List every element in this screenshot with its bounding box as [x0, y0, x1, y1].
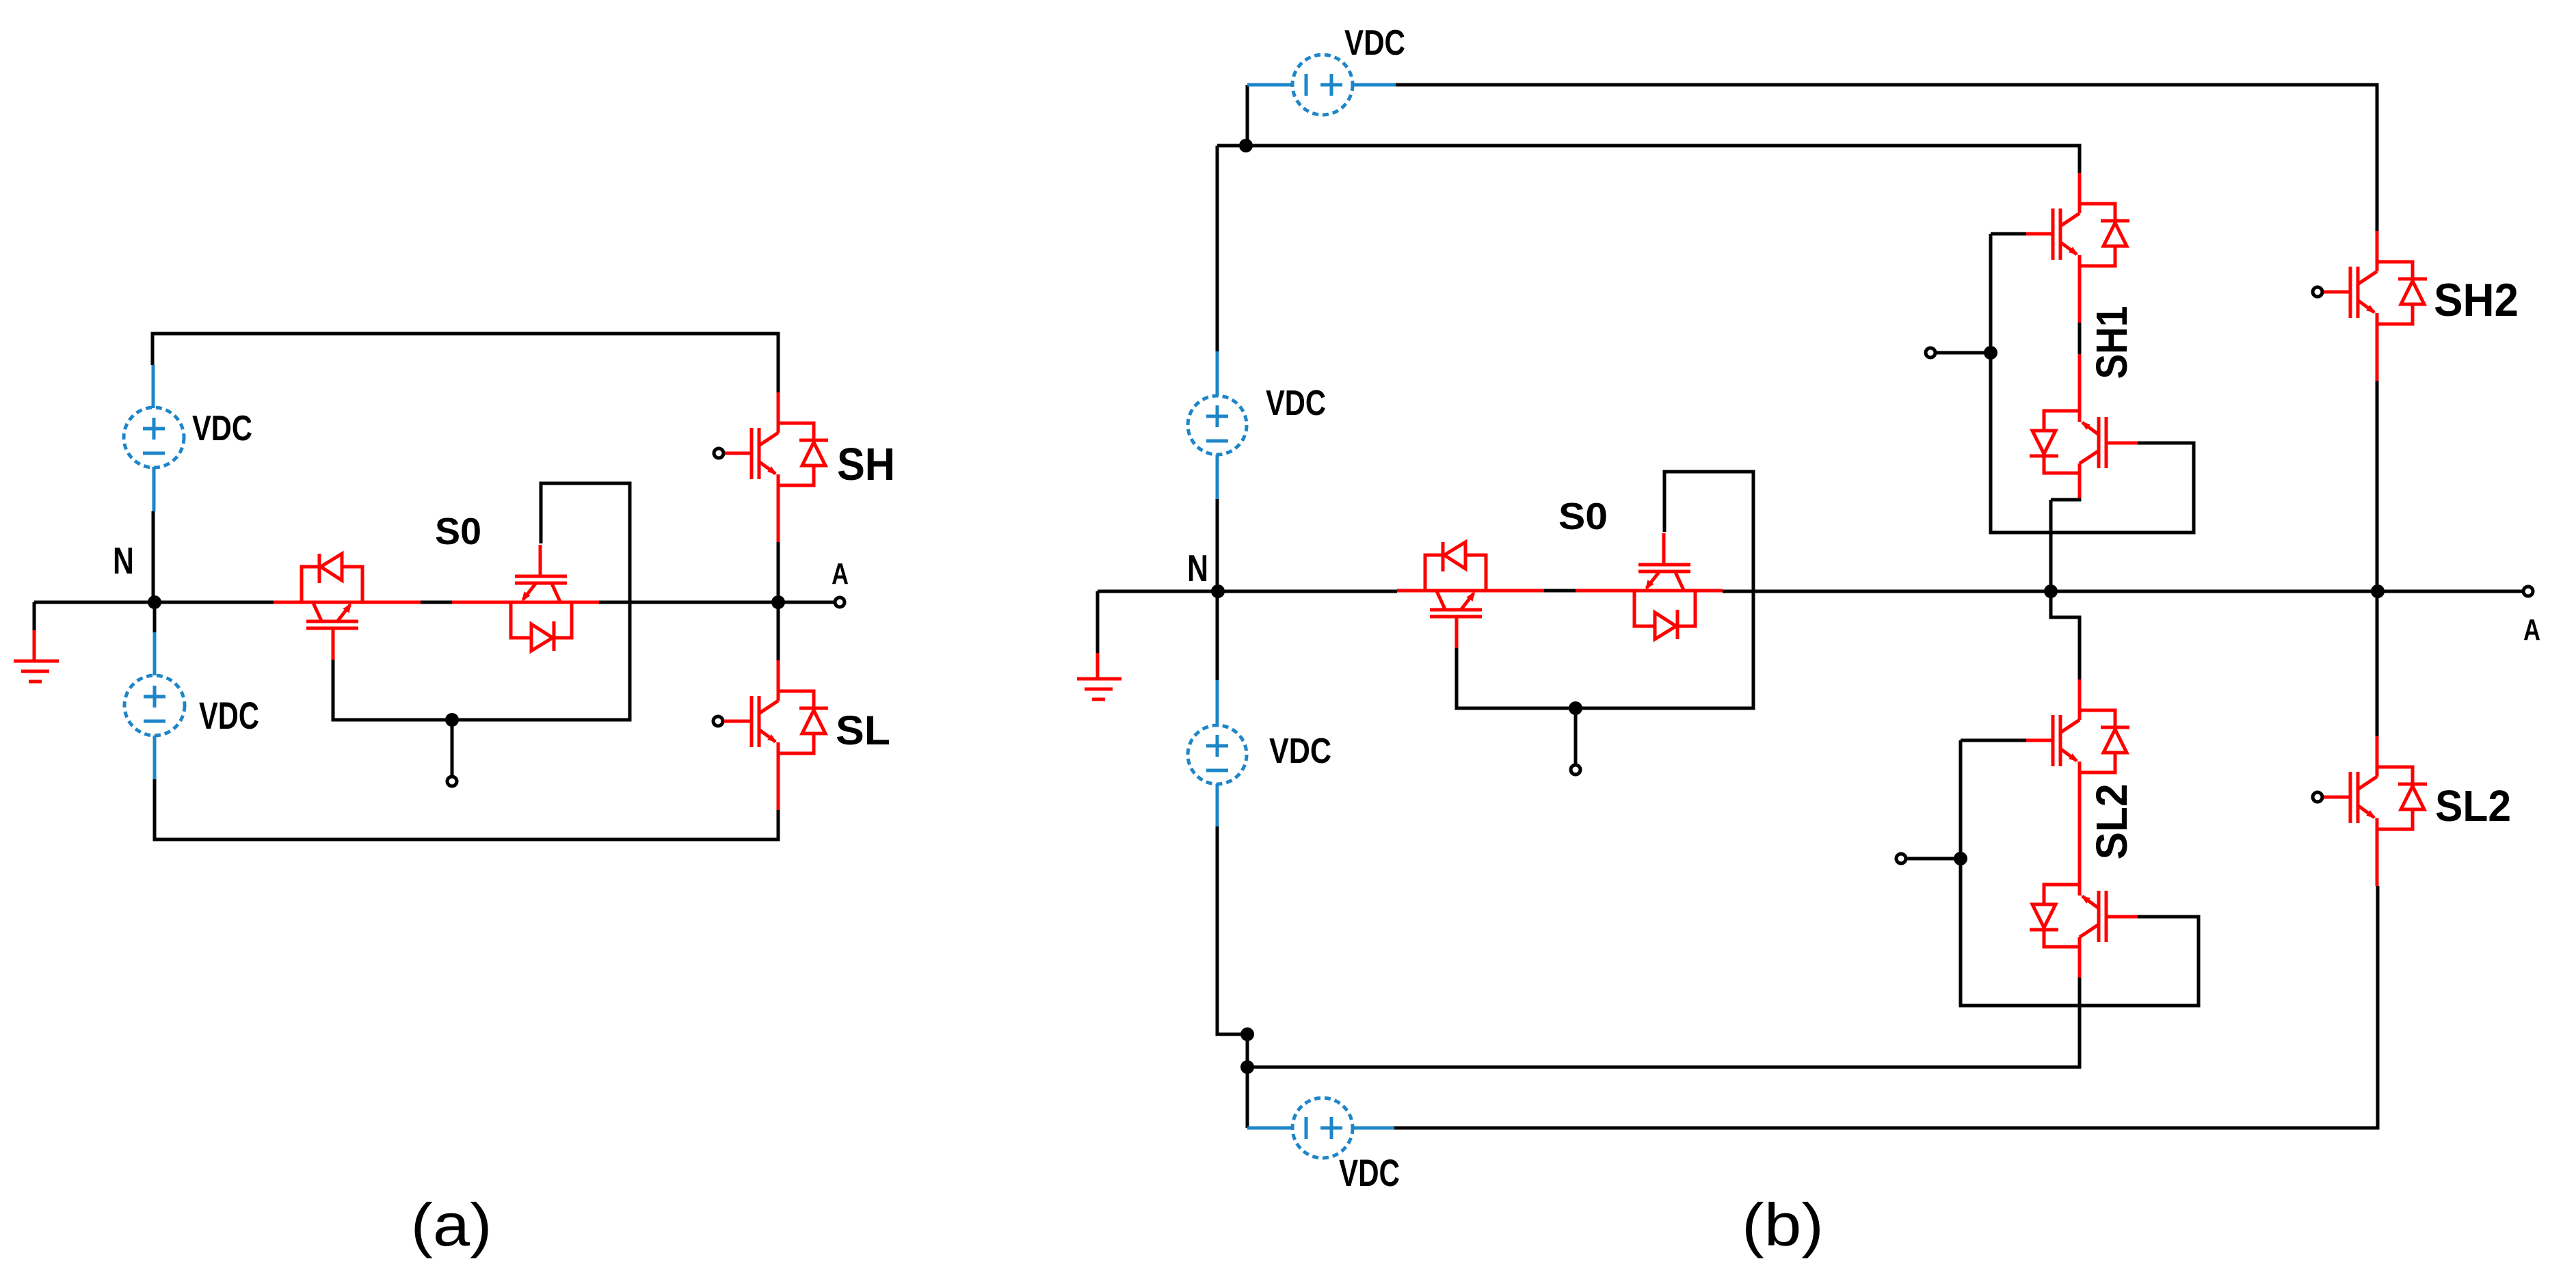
svg-text:SL: SL [836, 708, 890, 753]
svg-text:VDC: VDC [1344, 23, 1405, 63]
svg-text:VDC: VDC [199, 694, 259, 737]
svg-text:SH1: SH1 [2087, 306, 2136, 379]
svg-text:N: N [1187, 547, 1208, 589]
svg-text:A: A [2523, 613, 2540, 647]
svg-text:SL2: SL2 [2435, 781, 2511, 831]
svg-text:S0: S0 [435, 510, 481, 552]
svg-text:S0: S0 [1558, 495, 1608, 537]
svg-text:VDC: VDC [1266, 383, 1326, 423]
svg-text:SL2: SL2 [2087, 784, 2136, 860]
svg-text:N: N [113, 539, 134, 582]
svg-text:SH: SH [837, 439, 895, 490]
svg-text:(b): (b) [1742, 1191, 1824, 1258]
svg-text:A: A [832, 557, 849, 591]
svg-text:SH2: SH2 [2434, 274, 2519, 326]
svg-text:(a): (a) [411, 1191, 492, 1258]
svg-text:VDC: VDC [192, 409, 252, 448]
svg-text:VDC: VDC [1339, 1151, 1400, 1194]
svg-text:VDC: VDC [1269, 731, 1331, 771]
